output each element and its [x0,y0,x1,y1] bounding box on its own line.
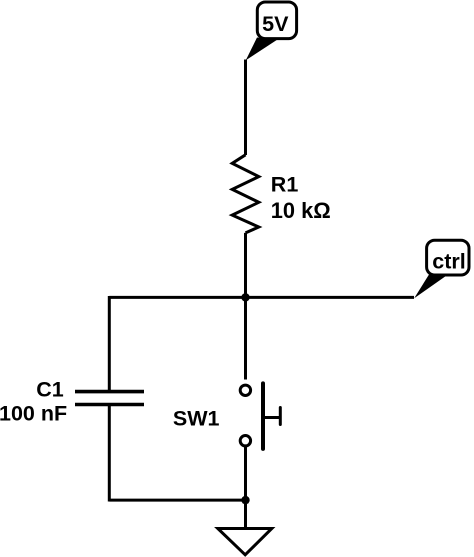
wire: node to left branch [109,296,245,299]
net flag ctrl [414,240,469,298]
wire: node to ctrl flag [246,296,415,299]
label R1 10 kΩ [271,173,331,223]
wire: switch bottom to bottom rail [244,447,247,501]
svg-text:C1: C1 [36,378,64,402]
wire: left branch down to capacitor [108,296,111,392]
switch SW1 [240,383,280,449]
label C1 100 nF [0,378,67,426]
wire: 5V to resistor [244,60,247,156]
svg-text:100 nF: 100 nF [0,401,67,425]
wire: bottom node to ground [244,500,247,528]
resistor R1 [232,155,259,233]
svg-text:R1: R1 [271,173,299,197]
node junction bottom [241,496,249,504]
svg-text:ctrl: ctrl [432,250,465,274]
node junction top [241,293,249,301]
ground [218,529,272,555]
power flag 5V [246,2,297,60]
svg-text:10 kΩ: 10 kΩ [271,198,331,223]
wire: capacitor to bottom rail [108,405,111,502]
svg-text:SW1: SW1 [173,407,220,431]
wire: resistor to node [244,233,247,298]
svg-text:5V: 5V [262,12,289,36]
wire: node to switch top [244,297,247,379]
wire: bottom rail [109,499,245,502]
capacitor C1 [75,392,144,405]
